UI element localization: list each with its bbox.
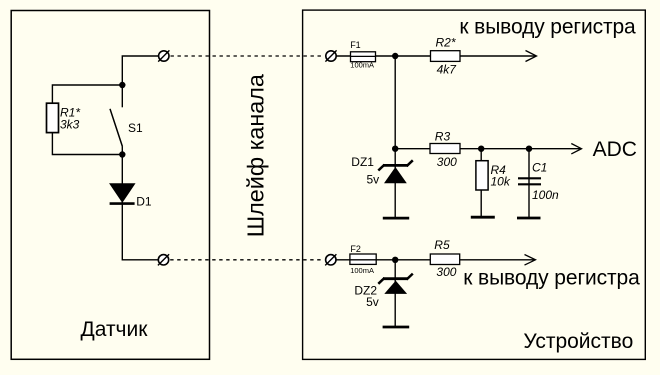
svg-text:5v: 5v [367,173,380,187]
junction node (R4) [478,146,484,152]
wire: fuse junction down to zener row [394,56,396,149]
junction node (F1/R2/DZ1) [392,53,398,59]
ground (DZ1) [383,217,409,220]
resistor R4 [476,161,488,190]
ground (DZ2) [383,326,410,329]
wire: top terminal to corner, left box [122,56,158,85]
svg-text:к выводу регистра: к выводу регистра [459,16,636,39]
terminal top-right (device input) [325,50,336,61]
svg-text:R5: R5 [434,238,450,252]
svg-text:DZ1: DZ1 [351,155,374,169]
enclosure box Датчик (sensor) [11,11,209,360]
dashed wire top (channel loop) [171,55,325,57]
capacitor C1 [518,178,541,184]
arrow to register (top) [526,51,537,62]
zener diode DZ1 [378,160,413,183]
arrow to register (bottom) [525,255,536,266]
junction node (sensor bottom) [119,151,125,157]
wire: lower junction down through D1 to bottom corner and terminal [122,155,158,260]
ground (R4) [471,216,495,219]
wire: bottom row, terminal to R5 to arrow [336,259,535,261]
svg-text:10k: 10k [491,175,511,189]
svg-text:к выводу регистра: к выводу регистра [463,266,640,289]
svg-text:300: 300 [436,265,456,279]
fuse F1 [351,52,376,62]
svg-text:F2: F2 [350,244,361,254]
zener diode DZ2 [378,274,413,294]
svg-text:300: 300 [437,155,457,169]
wire: C1 vertical to ground [528,149,530,217]
svg-text:5v: 5v [366,295,379,309]
resistor R3 [430,144,460,154]
wire: junction to R1 top [52,85,122,103]
enclosure box Устройство (device) [303,10,646,359]
wire: zener row horizontal to ADC arrow [395,148,581,150]
wire: DZ1 vertical to ground [394,149,396,217]
junction node (DZ1/R3) [392,146,398,152]
wire: R1 bottom to lower junction [52,133,122,155]
svg-text:ADC: ADC [593,138,637,161]
arrow ADC [571,144,581,154]
svg-text:C1: C1 [532,160,547,174]
svg-text:D1: D1 [136,194,152,208]
svg-text:4k7: 4k7 [437,63,458,77]
svg-text:100mA: 100mA [350,266,374,275]
svg-text:Датчик: Датчик [81,318,149,341]
junction node (F2/DZ2/R5) [392,257,398,263]
terminal bottom-right (device input) [325,254,336,265]
dashed wire bottom (channel loop) [170,259,324,261]
resistor R1 [47,103,59,132]
terminal bottom-left (sensor output) [158,254,169,265]
svg-text:R3: R3 [435,130,451,144]
resistor R2 [431,51,461,62]
svg-text:Шлейф канала: Шлейф канала [243,73,269,237]
diode D1 [110,184,135,204]
terminal top-left (sensor output) [158,50,169,61]
svg-text:Устройство: Устройство [523,330,633,353]
wire: top row, terminal to R2 to arrow [336,55,536,57]
svg-text:100n: 100n [532,188,559,202]
svg-text:100mA: 100mA [350,60,374,69]
wire: R4 vertical to ground [480,149,482,216]
wire: DZ2 vertical to ground [394,260,396,327]
svg-text:F1: F1 [350,40,361,50]
svg-text:3k3: 3k3 [60,118,80,132]
ground (C1) [517,217,541,220]
svg-text:R2*: R2* [436,36,456,50]
svg-text:S1: S1 [128,121,143,135]
fuse F2 [350,254,376,264]
junction node (C1) [526,146,532,152]
resistor R5 [430,254,459,265]
junction node (sensor top) [119,82,125,88]
switch S1 [110,85,122,155]
